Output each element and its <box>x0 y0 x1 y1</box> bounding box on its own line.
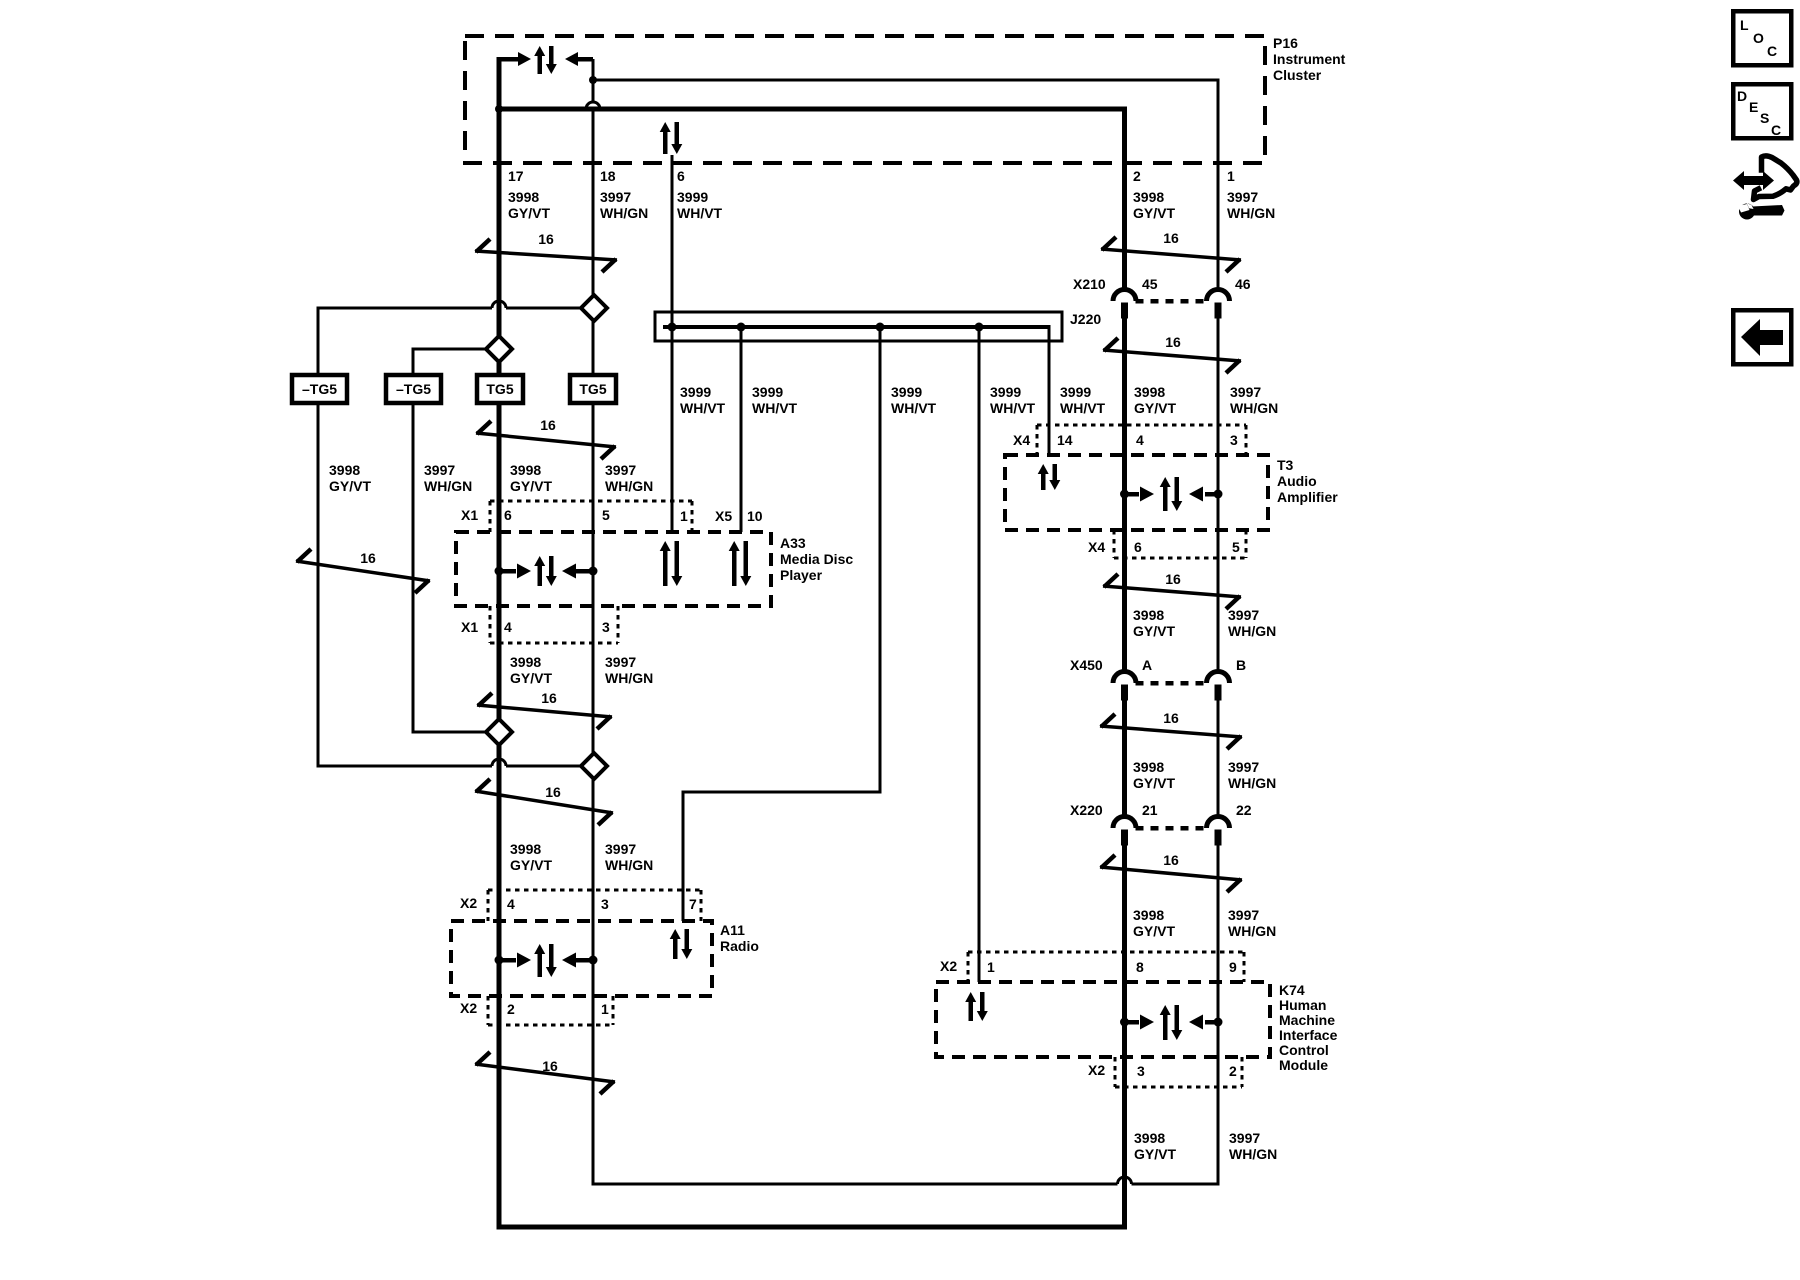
svg-text:WH/GN: WH/GN <box>1228 623 1276 639</box>
svg-text:J220: J220 <box>1070 311 1101 327</box>
svg-text:Audio: Audio <box>1277 473 1317 489</box>
svg-text:GY/VT: GY/VT <box>508 205 550 221</box>
svg-text:16: 16 <box>545 784 561 800</box>
svg-text:3997: 3997 <box>1229 1130 1260 1146</box>
svg-text:3998: 3998 <box>1133 907 1164 923</box>
svg-text:3998: 3998 <box>508 189 539 205</box>
svg-text:17: 17 <box>508 168 524 184</box>
svg-text:WH/GN: WH/GN <box>600 205 648 221</box>
svg-text:P16: P16 <box>1273 35 1298 51</box>
svg-text:X2: X2 <box>940 958 957 974</box>
svg-text:4: 4 <box>1136 432 1144 448</box>
svg-text:2: 2 <box>507 1001 515 1017</box>
svg-text:3999: 3999 <box>891 384 922 400</box>
svg-text:WH/GN: WH/GN <box>1229 1146 1277 1162</box>
svg-text:1: 1 <box>601 1001 609 1017</box>
svg-text:2: 2 <box>1229 1063 1237 1079</box>
svg-text:1: 1 <box>680 508 688 524</box>
svg-text:3998: 3998 <box>510 462 541 478</box>
svg-text:GY/VT: GY/VT <box>1134 1146 1176 1162</box>
svg-text:6: 6 <box>677 168 685 184</box>
svg-text:3999: 3999 <box>680 384 711 400</box>
svg-text:GY/VT: GY/VT <box>510 478 552 494</box>
svg-text:22: 22 <box>1236 802 1252 818</box>
svg-text:WH/VT: WH/VT <box>752 400 798 416</box>
svg-text:8: 8 <box>1136 959 1144 975</box>
svg-text:Media Disc: Media Disc <box>780 551 853 567</box>
svg-text:A33: A33 <box>780 535 806 551</box>
svg-text:21: 21 <box>1142 802 1158 818</box>
svg-text:2: 2 <box>1133 168 1141 184</box>
svg-text:X2: X2 <box>460 895 477 911</box>
svg-text:S: S <box>1760 110 1769 126</box>
svg-text:TG5: TG5 <box>579 381 606 397</box>
svg-text:WH/GN: WH/GN <box>605 670 653 686</box>
svg-text:3999: 3999 <box>990 384 1021 400</box>
svg-text:1: 1 <box>987 959 995 975</box>
svg-text:X1: X1 <box>461 507 478 523</box>
svg-text:16: 16 <box>1165 571 1181 587</box>
svg-text:9: 9 <box>1229 959 1237 975</box>
svg-text:T3: T3 <box>1277 457 1294 473</box>
svg-text:1: 1 <box>1227 168 1235 184</box>
svg-text:WH/VT: WH/VT <box>990 400 1036 416</box>
svg-text:WH/VT: WH/VT <box>677 205 723 221</box>
svg-text:3997: 3997 <box>605 654 636 670</box>
svg-text:C: C <box>1767 43 1777 59</box>
svg-text:Cluster: Cluster <box>1273 67 1322 83</box>
svg-text:16: 16 <box>1165 334 1181 350</box>
svg-text:WH/GN: WH/GN <box>1228 775 1276 791</box>
svg-text:X5: X5 <box>715 508 732 524</box>
svg-text:X2: X2 <box>460 1000 477 1016</box>
svg-text:3998: 3998 <box>1133 759 1164 775</box>
svg-text:3998: 3998 <box>510 654 541 670</box>
svg-text:3: 3 <box>1137 1063 1145 1079</box>
svg-text:X450: X450 <box>1070 657 1103 673</box>
svg-text:X220: X220 <box>1070 802 1103 818</box>
svg-text:O: O <box>1753 30 1764 46</box>
svg-text:WH/VT: WH/VT <box>1060 400 1106 416</box>
svg-text:GY/VT: GY/VT <box>1133 775 1175 791</box>
svg-text:GY/VT: GY/VT <box>1133 923 1175 939</box>
svg-text:X1: X1 <box>461 619 478 635</box>
svg-text:3997: 3997 <box>424 462 455 478</box>
svg-text:X4: X4 <box>1088 539 1105 555</box>
svg-text:3998: 3998 <box>329 462 360 478</box>
svg-text:5: 5 <box>602 507 610 523</box>
svg-text:WH/GN: WH/GN <box>1228 923 1276 939</box>
svg-text:X4: X4 <box>1013 432 1030 448</box>
svg-text:K74: K74 <box>1279 982 1305 998</box>
svg-text:WH/VT: WH/VT <box>680 400 726 416</box>
svg-text:Machine: Machine <box>1279 1012 1335 1028</box>
svg-text:5: 5 <box>1232 539 1240 555</box>
svg-text:3997: 3997 <box>1227 189 1258 205</box>
svg-text:3997: 3997 <box>605 841 636 857</box>
svg-text:3998: 3998 <box>510 841 541 857</box>
svg-text:4: 4 <box>507 896 515 912</box>
svg-text:D: D <box>1737 88 1747 104</box>
svg-text:3998: 3998 <box>1134 384 1165 400</box>
svg-text:Human: Human <box>1279 997 1326 1013</box>
svg-text:Amplifier: Amplifier <box>1277 489 1338 505</box>
svg-text:16: 16 <box>542 1058 558 1074</box>
svg-text:3997: 3997 <box>1228 759 1259 775</box>
svg-text:Instrument: Instrument <box>1273 51 1346 67</box>
svg-text:GY/VT: GY/VT <box>1134 400 1176 416</box>
svg-text:3998: 3998 <box>1133 607 1164 623</box>
svg-text:Interface: Interface <box>1279 1027 1338 1043</box>
svg-text:TG5: TG5 <box>486 381 513 397</box>
svg-text:GY/VT: GY/VT <box>510 857 552 873</box>
svg-text:16: 16 <box>1163 852 1179 868</box>
svg-text:3999: 3999 <box>752 384 783 400</box>
svg-text:GY/VT: GY/VT <box>510 670 552 686</box>
svg-text:WH/GN: WH/GN <box>424 478 472 494</box>
svg-text:3: 3 <box>602 619 610 635</box>
svg-text:3997: 3997 <box>1228 607 1259 623</box>
svg-text:16: 16 <box>538 231 554 247</box>
svg-text:3997: 3997 <box>1230 384 1261 400</box>
svg-text:Control: Control <box>1279 1042 1329 1058</box>
svg-text:GY/VT: GY/VT <box>1133 205 1175 221</box>
svg-text:WH/VT: WH/VT <box>891 400 937 416</box>
svg-text:–TG5: –TG5 <box>396 381 431 397</box>
svg-text:C: C <box>1771 122 1781 138</box>
svg-text:4: 4 <box>504 619 512 635</box>
svg-text:3: 3 <box>601 896 609 912</box>
svg-text:B: B <box>1236 657 1246 673</box>
svg-text:E: E <box>1749 99 1758 115</box>
svg-text:3997: 3997 <box>1228 907 1259 923</box>
svg-text:L: L <box>1740 17 1749 33</box>
svg-text:GY/VT: GY/VT <box>329 478 371 494</box>
svg-text:10: 10 <box>747 508 763 524</box>
svg-text:16: 16 <box>1163 230 1179 246</box>
svg-text:A11: A11 <box>720 922 745 938</box>
svg-text:X210: X210 <box>1073 276 1106 292</box>
svg-text:16: 16 <box>1163 710 1179 726</box>
svg-text:18: 18 <box>600 168 616 184</box>
svg-text:3997: 3997 <box>605 462 636 478</box>
svg-text:3: 3 <box>1230 432 1238 448</box>
svg-text:3998: 3998 <box>1133 189 1164 205</box>
svg-text:3998: 3998 <box>1134 1130 1165 1146</box>
svg-text:–TG5: –TG5 <box>302 381 337 397</box>
svg-text:6: 6 <box>1134 539 1142 555</box>
svg-text:16: 16 <box>541 690 557 706</box>
svg-text:16: 16 <box>360 550 376 566</box>
svg-text:GY/VT: GY/VT <box>1133 623 1175 639</box>
svg-text:Player: Player <box>780 567 823 583</box>
svg-text:WH/GN: WH/GN <box>605 478 653 494</box>
svg-text:16: 16 <box>540 417 556 433</box>
svg-text:WH/GN: WH/GN <box>1230 400 1278 416</box>
svg-text:Module: Module <box>1279 1057 1328 1073</box>
svg-text:6: 6 <box>504 507 512 523</box>
svg-text:3999: 3999 <box>677 189 708 205</box>
svg-text:7: 7 <box>689 896 697 912</box>
svg-text:A: A <box>1142 657 1152 673</box>
svg-text:3997: 3997 <box>600 189 631 205</box>
svg-text:3999: 3999 <box>1060 384 1091 400</box>
svg-text:14: 14 <box>1057 432 1073 448</box>
svg-text:Radio: Radio <box>720 938 759 954</box>
svg-text:X2: X2 <box>1088 1062 1105 1078</box>
svg-text:46: 46 <box>1235 276 1251 292</box>
svg-text:WH/GN: WH/GN <box>605 857 653 873</box>
svg-text:45: 45 <box>1142 276 1158 292</box>
svg-text:WH/GN: WH/GN <box>1227 205 1275 221</box>
